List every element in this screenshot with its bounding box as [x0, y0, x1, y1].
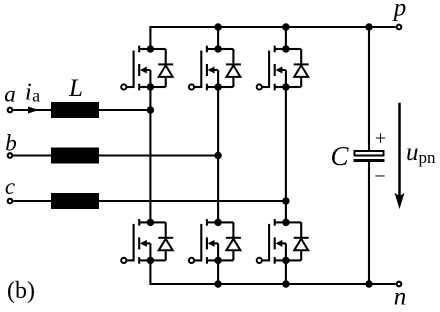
wire capacitor branch top — [368, 27, 370, 151]
diode D2 (antiparallel with Q2) — [150, 222, 173, 260]
capacitor C — [354, 151, 385, 162]
wire leg 1 bottom: Q2 source to rail — [149, 260, 151, 284]
wire phase c: terminal to inductor — [13, 200, 51, 202]
wire bottom rail n — [149, 283, 395, 285]
wire leg 1 middle: Q1 source to phase node — [149, 87, 151, 110]
wire leg 1 middle: phase node to Q2 drain — [149, 110, 151, 222]
node top rail / leg 3 — [282, 23, 289, 30]
terminal a — [8, 108, 13, 113]
wire leg 3 top: rail to Q5 drain — [285, 27, 287, 49]
wire phase c: inductor to bridge leg — [99, 200, 286, 202]
node Q2 drain — [147, 219, 154, 226]
current arrow i_a — [28, 107, 39, 114]
terminal b — [8, 153, 13, 158]
inductor Lc — [51, 193, 99, 209]
wire leg 3 middle: Q5 source to phase node — [285, 87, 287, 201]
wire phase a: inductor to bridge leg — [99, 109, 150, 111]
svg-text:−: − — [374, 166, 385, 188]
node Q2 source — [147, 257, 154, 264]
wire phase b: inductor to bridge leg — [99, 154, 218, 156]
terminal c — [8, 199, 13, 204]
svg-text:(b): (b) — [7, 278, 35, 304]
diode D6 (antiparallel with Q6) — [286, 222, 309, 260]
transistor Q1 — [121, 46, 150, 91]
inductor La — [51, 102, 99, 118]
wire phase b: terminal to inductor — [13, 154, 51, 156]
transistor Q4 — [189, 219, 218, 264]
node bottom rail / leg 2 — [214, 280, 221, 287]
node bottom rail / capacitor branch — [365, 280, 372, 287]
terminal p — [397, 25, 402, 30]
transistor Q3 — [189, 46, 218, 91]
svg-text:a: a — [4, 82, 16, 107]
node Q6 drain — [282, 219, 289, 226]
node top rail / capacitor branch — [365, 23, 372, 30]
transistor Q5 — [257, 46, 286, 91]
wire leg 2 top: rail to Q3 drain — [217, 27, 219, 49]
svg-text:b: b — [5, 131, 17, 156]
node Q5 drain — [282, 45, 289, 52]
node Q5 source — [282, 83, 289, 90]
wire leg 3 middle: phase node to Q6 drain — [285, 201, 287, 222]
svg-text:L: L — [68, 75, 83, 102]
node phase b junction — [214, 152, 221, 159]
voltage arrow u_pn — [395, 103, 403, 208]
inductor Lb — [51, 148, 99, 164]
svg-text:p: p — [392, 0, 407, 22]
node bottom rail / leg 3 — [282, 280, 289, 287]
wire leg 2 middle: Q3 source to phase node — [217, 87, 219, 156]
wire capacitor branch bottom — [368, 162, 370, 284]
wire leg 2 middle: phase node to Q4 drain — [217, 156, 219, 223]
wire leg 3 bottom: Q6 source to rail — [285, 260, 287, 284]
diode D5 (antiparallel with Q5) — [286, 49, 309, 87]
terminal n — [397, 282, 402, 287]
node phase c junction — [282, 197, 289, 204]
node Q3 source — [214, 83, 221, 90]
node Q4 drain — [214, 219, 221, 226]
diode D1 (antiparallel with Q1) — [150, 49, 173, 87]
node Q3 drain — [214, 45, 221, 52]
diode D3 (antiparallel with Q3) — [218, 49, 241, 87]
svg-text:+: + — [375, 128, 386, 150]
svg-text:C: C — [330, 141, 349, 171]
svg-text:ia: ia — [25, 80, 40, 106]
node top rail / leg 2 — [214, 23, 221, 30]
node Q4 source — [214, 257, 221, 264]
svg-text:n: n — [394, 284, 407, 311]
wire top rail p — [149, 26, 395, 28]
svg-text:upn: upn — [406, 139, 436, 167]
node Q6 source — [282, 257, 289, 264]
transistor Q2 — [121, 219, 150, 264]
node Q1 drain — [147, 45, 154, 52]
wire phase a: terminal to inductor — [13, 109, 51, 111]
node phase a junction — [147, 106, 154, 113]
diode D4 (antiparallel with Q4) — [218, 222, 241, 260]
node Q1 source — [147, 83, 154, 90]
wire leg 2 bottom: Q4 source to rail — [217, 260, 219, 284]
svg-text:c: c — [5, 174, 15, 199]
transistor Q6 — [257, 219, 286, 264]
wire leg 1 top: rail to Q1 drain — [149, 27, 151, 49]
